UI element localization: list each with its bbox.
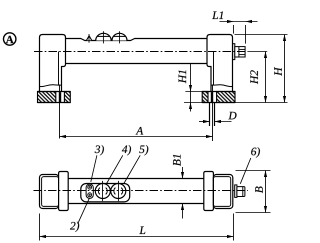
dimension H2	[250, 52, 267, 103]
tube top contour with grip recess	[66, 39, 208, 41]
callout 3)	[91, 145, 104, 182]
tube outline (plan)	[68, 178, 204, 180]
dimension H	[274, 35, 286, 103]
tube bottom line	[66, 63, 208, 65]
dimension A	[60, 127, 213, 138]
stud centerline	[212, 85, 214, 142]
left end cap (plan)	[40, 172, 69, 211]
push button 2 (plan)	[111, 181, 126, 201]
view label circle A	[4, 33, 16, 45]
dimension B	[236, 171, 271, 213]
side screw on right cap	[233, 44, 245, 60]
left base plate (sectioned)	[38, 92, 71, 103]
dimension L1	[212, 11, 257, 43]
dome button 1	[96, 31, 112, 43]
dimension H1	[179, 64, 203, 112]
H top extension line	[235, 34, 288, 36]
left leg tube-end inner line	[58, 52, 60, 86]
callout 6)	[240, 147, 260, 184]
small cone button on tube	[87, 36, 92, 41]
dimension B1	[173, 155, 184, 219]
left leg outline (cap + body)	[40, 35, 66, 92]
H2 top extension line	[248, 51, 268, 53]
right base plate (sectioned)	[202, 92, 235, 103]
LED pill	[86, 184, 93, 198]
dimension L	[40, 214, 234, 241]
dimension D	[199, 112, 237, 123]
callout 5)	[124, 145, 149, 184]
callout 2)	[70, 198, 89, 232]
tube centerline	[34, 51, 248, 53]
right leg tube-end inner line	[213, 52, 215, 86]
side screw (plan)	[235, 185, 245, 198]
bottom extension line (mounting surface)	[184, 102, 288, 104]
callout 4)	[106, 145, 131, 184]
push button 1 (plan)	[95, 181, 110, 201]
switch panel stadium	[81, 184, 130, 202]
left leg hole centerline	[59, 85, 61, 139]
threaded stud under right base	[210, 103, 215, 127]
bottom view centerline	[34, 190, 249, 192]
right end cap (plan)	[204, 172, 233, 211]
dome button 2	[112, 31, 127, 43]
right leg outline (cap + body)	[207, 35, 233, 92]
right leg foot transition contour	[211, 85, 233, 87]
left leg foot transition contour	[40, 85, 62, 87]
